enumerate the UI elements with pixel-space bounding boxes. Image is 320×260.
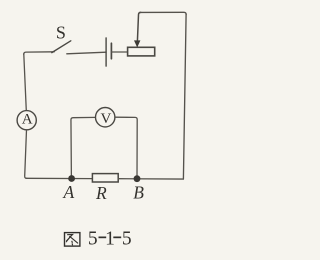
svg-text:5: 5 bbox=[122, 229, 132, 250]
node A junction dot bbox=[68, 175, 75, 182]
svg-text:A: A bbox=[22, 111, 33, 127]
rheostat wiper arrowhead bbox=[134, 40, 140, 47]
rheostat body (box) bbox=[128, 47, 155, 56]
caption dash 2 bbox=[113, 237, 121, 239]
svg-text:V: V bbox=[100, 111, 111, 127]
ammeter A1 circle bbox=[17, 111, 36, 130]
svg-text:B: B bbox=[133, 183, 144, 203]
wire: switch right contact to battery bbox=[67, 52, 106, 54]
svg-text:S: S bbox=[56, 23, 66, 43]
battery long plate bbox=[105, 38, 107, 66]
resistor R box bbox=[92, 174, 118, 182]
caption character 图 (drawn) bbox=[65, 233, 80, 247]
caption dash 1 bbox=[99, 237, 107, 239]
wire: ammeter down to bottom-left corner bbox=[25, 130, 27, 179]
wire: right vertical down to bottom-right corner bbox=[183, 14, 186, 179]
svg-text:R: R bbox=[95, 183, 107, 203]
node B junction dot bbox=[134, 175, 141, 182]
svg-text:5: 5 bbox=[88, 229, 98, 250]
wire: battery to rheostat bbox=[111, 51, 127, 53]
svg-text:1: 1 bbox=[105, 229, 115, 250]
wire: top horizontal to top-right corner bbox=[140, 12, 186, 14]
battery short plate bbox=[110, 43, 112, 59]
svg-text:A: A bbox=[63, 182, 75, 202]
wire: resistor to bottom-right corner bbox=[118, 178, 183, 180]
voltmeter V1 circle bbox=[96, 108, 115, 127]
wire: top-left horizontal, switch hinge to top-left corner bbox=[24, 52, 54, 55]
voltmeter branch left side bbox=[71, 117, 96, 178]
paper background bbox=[0, 0, 202, 260]
voltmeter branch right side bbox=[115, 117, 137, 179]
wire: bottom horizontal, corner to node A to resistor bbox=[26, 177, 93, 179]
wire: rheostat wiper arrow shaft up to top wire bbox=[137, 12, 140, 41]
switch S blade bbox=[52, 41, 71, 53]
wire: left vertical down to ammeter bbox=[24, 54, 27, 111]
